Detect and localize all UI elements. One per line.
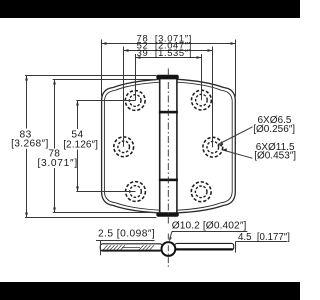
hinge right leaf outer outline [177, 79, 235, 213]
2.5 thickness: underline + tip extension [96, 240, 155, 242]
arrows 52 [124, 49, 129, 52]
hole top-left outer [125, 91, 145, 111]
svg-text:[Ø0.453″]: [Ø0.453″] [254, 151, 296, 162]
hole mid-left outer [114, 137, 134, 157]
barrel centerline (dash-dot) [167, 234, 169, 268]
left 54 dimension line (broken for text) [77, 101, 79, 130]
svg-text:[3.071″]: [3.071″] [38, 158, 78, 169]
leader arrow 10.2 [169, 237, 172, 241]
svg-text:4.5 [0.177″]: 4.5 [0.177″] [238, 232, 290, 243]
hole bottom-right inner [195, 186, 207, 198]
top 39 extension lines to top holes [135, 54, 137, 101]
dimension line 39 [136, 57, 202, 59]
arrows 54 left [76, 101, 79, 106]
dimension linework [25, 40, 253, 218]
top 52 extension lines to middle holes [123, 47, 125, 147]
hinge left leaf outer outline [102, 79, 160, 213]
hole mid-right inner [207, 141, 219, 153]
hole top-right outer [192, 90, 212, 110]
dimension line 78 [102, 43, 236, 45]
svg-text:[3.268″]: [3.268″] [11, 139, 49, 150]
top width 78 extension lines [101, 40, 103, 97]
bottom letterbox bar [0, 282, 300, 300]
hole bottom-right outer [191, 182, 211, 202]
svg-text:[Ø0.256″]: [Ø0.256″] [253, 124, 295, 135]
left 78 dimension line (broken for text) [54, 80, 56, 149]
knuckle barrel sides [160, 79, 177, 213]
arrows 39 [136, 56, 141, 59]
mid split line [122, 246, 140, 248]
svg-text:2.5 [0.098″]: 2.5 [0.098″] [98, 229, 155, 240]
hinge right leaf inner edge line [177, 82, 232, 210]
svg-text:[2.126″]: [2.126″] [63, 140, 98, 151]
bottom view labels [98, 221, 290, 244]
leader to 11.5 hole label [222, 150, 252, 158]
left leaf bar (sectioned) [100, 244, 162, 251]
diameter 10.2 leader [172, 231, 247, 233]
knuckle top crimp bar [156, 75, 179, 80]
hole bottom-left inner [130, 186, 142, 198]
knuckle bottom crimp bar [156, 212, 179, 217]
top dimension texts [137, 32, 192, 58]
knuckle joint band upper [159, 111, 178, 114]
dimension line 52 [124, 50, 213, 52]
knuckle centerline (dash-dot) [167, 69, 169, 224]
arrows 83 [25, 76, 28, 81]
leader to 6.5 hole label [218, 127, 253, 145]
leader arrow 11.5 [222, 148, 227, 151]
left dimension texts [11, 130, 98, 169]
screw holes: outer Ø11.5 dashed, inner Ø6.5 dashed [114, 90, 223, 202]
4.5 dim: underline + tip extension [236, 241, 288, 243]
hole bottom-left outer [126, 182, 146, 202]
left 78 extension lines [53, 79, 160, 81]
knuckle joint band lower [159, 179, 178, 182]
side view dimension linework [96, 232, 287, 256]
left 54 extension lines to left holes [76, 100, 135, 102]
hatch patch 1 [103, 245, 125, 250]
hinge left leaf inner edge line [104, 82, 159, 210]
right leaf bar [175, 243, 234, 250]
right leaf thick bottom edge [176, 248, 233, 250]
hole mid-right outer [203, 137, 223, 157]
svg-text:39 [1.535″]: 39 [1.535″] [137, 47, 192, 58]
hatch patch 2 [139, 245, 154, 250]
hole mid-left inner [118, 141, 130, 153]
barrel circle [162, 242, 176, 256]
arrows 78 top [102, 42, 107, 45]
dimension arrowheads [25, 42, 235, 217]
left 83 extension lines [25, 75, 156, 77]
hole top-right inner [196, 94, 208, 106]
arrows 78 left [53, 80, 56, 85]
hole top-left inner [129, 95, 141, 107]
left 83 dimension line (broken for text) [26, 76, 28, 129]
top letterbox bar [0, 0, 300, 18]
right hole labels [253, 115, 296, 162]
svg-text:Ø10.2 [Ø0.402″]: Ø10.2 [Ø0.402″] [172, 221, 247, 232]
leader arrow 6.5 [218, 144, 223, 147]
